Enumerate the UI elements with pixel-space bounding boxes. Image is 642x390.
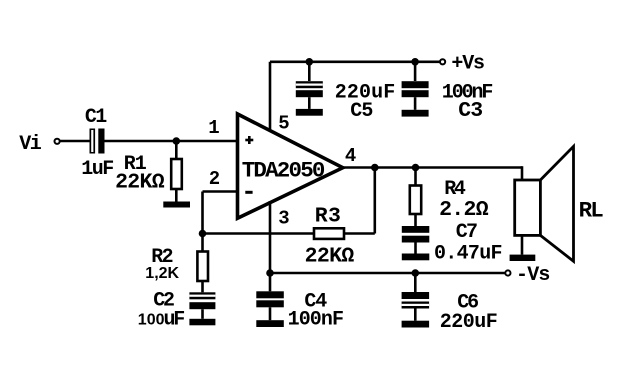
svg-text:RL: RL [579,197,604,223]
svg-text:-Vs: -Vs [516,264,550,287]
wire pin 3 to -Vs rail [269,201,272,273]
svg-text:22KΩ: 22KΩ [115,171,165,195]
node junction output/feedback [371,164,379,172]
capacitor C4 100nF [256,273,343,332]
svg-text:C3: C3 [458,99,482,123]
svg-text:22KΩ: 22KΩ [305,244,355,268]
svg-text:3: 3 [278,207,289,229]
pin 1 label [208,117,219,139]
wire output pin 4 [343,166,522,169]
wire pin 2 [203,192,238,234]
node -Vs terminal [505,264,549,287]
svg-text:0.47uF: 0.47uF [434,243,502,266]
ground below speaker [510,255,536,261]
svg-text:C1: C1 [85,106,107,129]
svg-text:5: 5 [278,112,289,134]
svg-text:uF: uF [164,309,185,332]
svg-text:+Vs: +Vs [451,53,484,76]
node junction input/R1 [173,137,181,145]
pin 5 label [278,112,289,134]
svg-text:100: 100 [138,311,165,328]
wire feedback node to R3 [203,232,315,235]
wire +Vs rail [270,60,440,63]
wire -Vs rail [270,272,506,275]
svg-text:R3: R3 [315,205,342,229]
wire output to speaker [521,166,524,181]
pin 4 label [345,145,356,167]
svg-text:2.2Ω: 2.2Ω [439,198,489,222]
node +Vs terminal [440,53,484,76]
capacitor C3 100nF [402,62,493,123]
ground below R1 [163,202,190,208]
node junction pin2/R2/R3 [199,230,207,238]
wire pin 5 to +Vs rail [269,62,272,131]
plus marking non-inverting input [245,136,253,144]
ground below C2 [189,319,215,326]
svg-text:C5: C5 [350,100,372,123]
node junction output/R4 [412,164,420,172]
resistor R4 2.2 ohm [410,168,489,227]
ground below C4 [256,320,284,327]
pin 2 label [209,168,220,190]
resistor R2 1.2K [145,234,208,293]
svg-text:Vi: Vi [19,133,42,156]
pin 3 label [278,207,289,229]
svg-text:220uF: 220uF [440,311,498,334]
node Vi input terminal [19,133,59,156]
node junction C5/+Vs rail [306,58,314,66]
svg-text:1: 1 [208,117,219,139]
node junction C6/-Vs rail [412,269,420,277]
op-amp U1 TDA2050 [238,114,343,218]
speaker RL [515,146,604,261]
svg-text:1uF: 1uF [81,158,113,181]
capacitor C2 100uF [138,290,216,332]
svg-text:4: 4 [345,145,356,167]
resistor R3 22K feedback [305,205,355,269]
ground below C5 [296,109,323,116]
svg-text:1,2K: 1,2K [145,265,179,282]
ground below C7 [402,254,430,261]
ground below C3 [402,110,429,117]
resistor R1 22K [115,141,182,202]
capacitor C6 220uF [402,273,498,334]
svg-text:100nF: 100nF [288,309,344,332]
capacitor C1 1uF [81,106,113,181]
wire R3 to output node [344,168,375,234]
svg-text:2: 2 [209,168,220,190]
wire input terminal to C1 [60,140,90,143]
ground below C6 [402,321,430,328]
svg-text:C7: C7 [456,221,477,244]
wire C1 to pin 1 of op-amp [105,140,238,143]
svg-text:TDA2050: TDA2050 [242,157,325,183]
capacitor C7 0.47uF [402,221,502,265]
capacitor C5 220uF [296,62,396,123]
node junction pin3/C4/-Vs rail [266,269,274,277]
node junction C3/+Vs rail [411,58,419,66]
minus marking inverting input [245,191,252,194]
